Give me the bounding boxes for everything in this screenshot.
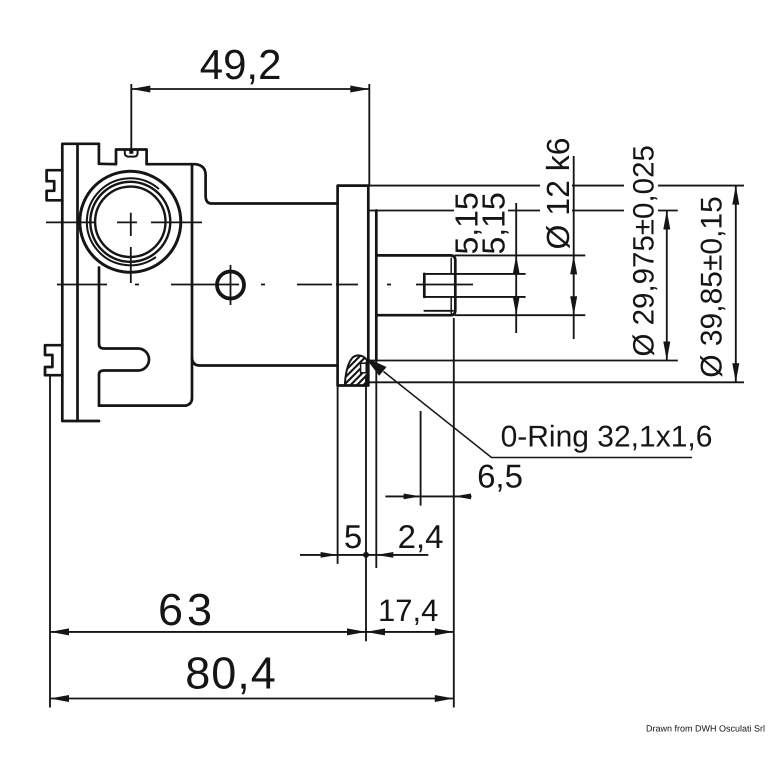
- body lower right edge: [192, 358, 338, 366]
- O-ring groove void: [361, 363, 367, 373]
- O-ring cross-section hatched: [328, 352, 396, 402]
- dimension Ø 39,85±0,15: [732, 186, 739, 383]
- dimension Ø 12 k6: [570, 156, 577, 339]
- dimension 80,4: [50, 695, 454, 702]
- svg-text:6,5: 6,5: [477, 458, 523, 495]
- flange top extension: [368, 185, 744, 187]
- key slot end curves: [450, 258, 452, 313]
- hub Ø30 spigot: [375, 211, 378, 361]
- dimension 49,2: [131, 84, 369, 186]
- boss tab dimple: [125, 150, 138, 156]
- center lines: [46, 213, 473, 305]
- main axis centerline: [57, 284, 473, 286]
- shaft bottom extension: [455, 314, 586, 316]
- left extension line: [49, 376, 51, 708]
- body rear face vertical: [186, 164, 192, 405]
- groove extension: [365, 375, 367, 642]
- port circle vertical centerline: [130, 213, 132, 283]
- dimension 5,15 5,15: [513, 203, 520, 333]
- key slot left edge: [423, 274, 426, 297]
- svg-text:0-Ring 32,1x1,6: 0-Ring 32,1x1,6: [501, 421, 713, 454]
- port circle outer: [80, 171, 181, 272]
- dimension Ø 29,975±0,025: [663, 211, 670, 361]
- dimension extension lines right side: [366, 186, 744, 383]
- hub top extension: [368, 210, 678, 212]
- hub face extension: [375, 361, 377, 569]
- body front face step: [98, 144, 101, 163]
- white halos where rotated labels interrupt extension lines: [454, 136, 726, 380]
- O-ring leader arrow: [369, 360, 692, 457]
- body face below circle and U-slot: [99, 268, 149, 406]
- body top edge with boss tab: [99, 150, 196, 165]
- plate lower tab: [45, 345, 62, 375]
- flange: [338, 186, 369, 386]
- port circle horizontal centerline: [46, 221, 202, 223]
- svg-text:2,4: 2,4: [398, 518, 444, 555]
- flange left face extension: [337, 386, 339, 564]
- hub bottom extension: [368, 360, 678, 362]
- bolt hole vertical centerline: [230, 265, 232, 305]
- dimension 63 and 17,4: [50, 318, 454, 708]
- svg-text:5: 5: [344, 518, 362, 555]
- port circle partial shoulder arc: [87, 178, 158, 265]
- shaft top extension: [455, 254, 586, 256]
- svg-text:Ø 39,85±0,15: Ø 39,85±0,15: [696, 196, 729, 378]
- shaft outline: [376, 255, 455, 315]
- svg-text:63: 63: [158, 584, 216, 635]
- flange bottom extension: [366, 381, 744, 383]
- svg-text:Ø 12 k6: Ø 12 k6: [540, 137, 576, 249]
- body top step S-curve: [196, 164, 338, 203]
- plate upper tab: [47, 170, 63, 200]
- body bottom edge: [99, 404, 186, 407]
- svg-text:49,2: 49,2: [200, 41, 282, 88]
- port circle inner bore: [95, 187, 165, 257]
- svg-text:Ø 29,975±0,025: Ø 29,975±0,025: [628, 145, 661, 356]
- bolt hole circle: [217, 272, 244, 299]
- key slot bottom line + extension: [424, 296, 525, 298]
- dimension 5 and 2,4: [300, 361, 428, 642]
- shaft end extension line: [453, 318, 455, 708]
- svg-text:80,4: 80,4: [185, 648, 277, 699]
- dimension 6,5: [385, 411, 471, 506]
- svg-text:Drawn from DWH Osculati Srl: Drawn from DWH Osculati Srl: [646, 724, 765, 734]
- boss tab dimple dot: [129, 150, 133, 154]
- mounting plate: [62, 144, 99, 421]
- svg-text:17,4: 17,4: [378, 593, 438, 628]
- port circle mid ring: [90, 182, 170, 262]
- key slot top line + extension: [424, 273, 525, 275]
- svg-text:5,15: 5,15: [476, 192, 512, 254]
- key slot lower line: [424, 310, 453, 312]
